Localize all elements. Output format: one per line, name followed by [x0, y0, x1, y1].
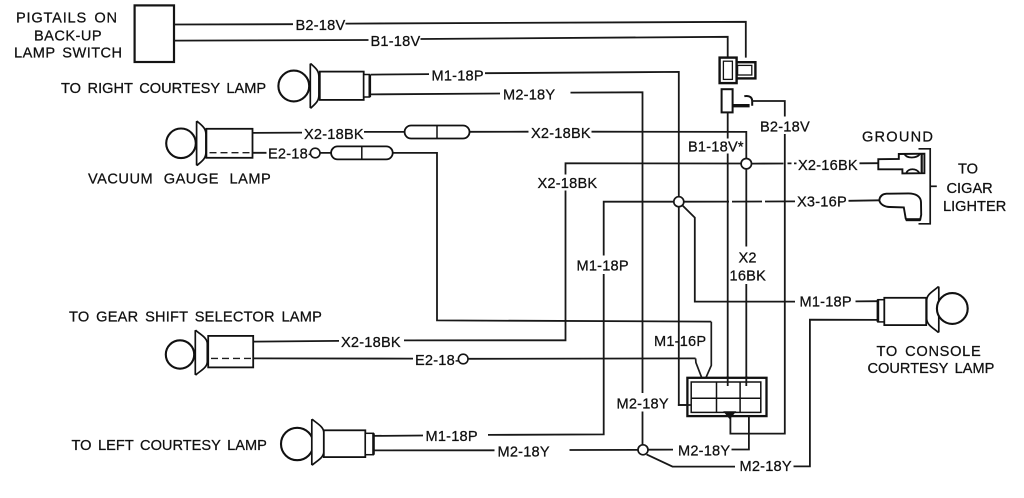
wire B2-18V right drop [730, 101, 784, 434]
svg-text:M2-18Y: M2-18Y [678, 444, 730, 460]
svg-text:M2-18Y: M2-18Y [503, 88, 555, 104]
svg-text:VACUUM GAUGE LAMP: VACUUM GAUGE LAMP [88, 172, 271, 188]
label E2-18-O vacuum [268, 147, 320, 163]
lamp: left courtesy band [365, 433, 373, 454]
lamp: gear shift selector socket [208, 336, 253, 368]
wire M2-18Y from left courtesy lamp [375, 449, 639, 452]
junction circle M2-18Y net [638, 320, 878, 467]
wire X2-16BK to ground [752, 162, 879, 164]
junction circle M1-18P net [674, 197, 878, 302]
dashed lead inside gear shift socket [211, 357, 253, 359]
svg-text:M2-18Y: M2-18Y [740, 459, 792, 475]
dashed lead inside vacuum gauge socket [210, 152, 253, 154]
backup lamp switch pigtail box [135, 5, 174, 62]
label E2-18-O gear shift [415, 353, 468, 369]
lamp: right courtesy flange [310, 64, 319, 108]
svg-text:B1-18V*: B1-18V* [688, 140, 744, 156]
svg-text:M1-18P: M1-18P [426, 429, 478, 445]
svg-text:TO CONSOLE: TO CONSOLE [877, 344, 982, 360]
cigar lighter elbow connector [879, 193, 921, 220]
svg-text:M2-18Y: M2-18Y [617, 397, 669, 413]
svg-text:TO GEAR SHIFT SELECTOR LAMP: TO GEAR SHIFT SELECTOR LAMP [69, 310, 322, 326]
svg-text:TO LEFT COURTESY LAMP: TO LEFT COURTESY LAMP [72, 438, 267, 454]
bullet connector on E2-18-O [331, 146, 393, 159]
svg-text:M1-16P: M1-16P [654, 334, 706, 350]
lamp: right courtesy band [364, 75, 370, 98]
lamp: right courtesy bulb [278, 71, 309, 102]
label PIGTAILS ON BACK-UP LAMP SWITCH [14, 11, 123, 62]
svg-text:X2-18BK: X2-18BK [341, 335, 401, 351]
svg-text:X3-16P: X3-16P [797, 195, 847, 211]
svg-text:X2: X2 [739, 251, 757, 267]
label TO CIGAR LIGHTER [943, 162, 1006, 216]
lamp: gear shift selector bulb [166, 340, 194, 368]
ground terminal [878, 154, 924, 174]
label TO CONSOLE COURTESY LAMP [868, 344, 995, 377]
svg-text:BACK-UP: BACK-UP [34, 29, 102, 45]
label X2 16BK stacked [730, 251, 767, 285]
svg-text:M1-18P: M1-18P [577, 259, 629, 275]
svg-text:M1-18P: M1-18P [432, 69, 484, 85]
wire X2-16BK drop to connector block [745, 169, 747, 386]
connector block (console harness) [687, 378, 766, 416]
svg-text:B2-18V: B2-18V [296, 18, 346, 34]
svg-text:E2-18-: E2-18- [415, 353, 460, 369]
svg-text:X2-18BK: X2-18BK [304, 127, 364, 143]
wire M1-16P funnel into connector block [696, 322, 712, 382]
lamp: console courtesy socket [884, 298, 926, 325]
svg-text:B1-18V: B1-18V [371, 34, 421, 50]
svg-text:B2-18V: B2-18V [760, 120, 810, 136]
lamp: vacuum gauge bulb [166, 129, 196, 159]
lamp: console courtesy bulb [937, 293, 968, 324]
connector block index arrow [723, 411, 736, 419]
single pigtail connector below plug [722, 89, 733, 112]
hook terminal on pigtail [733, 96, 753, 106]
svg-text:PIGTAILS ON: PIGTAILS ON [16, 11, 118, 27]
svg-text:GROUND: GROUND [862, 130, 934, 146]
lamp: right courtesy socket [320, 72, 364, 100]
svg-text:LIGHTER: LIGHTER [943, 199, 1006, 215]
svg-text:X2-18BK: X2-18BK [531, 126, 591, 142]
wire X3-16P run [374, 200, 880, 436]
svg-text:16BK: 16BK [730, 269, 767, 285]
svg-text:COURTESY LAMP: COURTESY LAMP [868, 361, 995, 377]
lamp: left courtesy flange [312, 420, 324, 465]
bracket to cigar lighter [919, 149, 937, 224]
svg-text:E2-18-: E2-18- [268, 147, 313, 163]
wire X2-18BK from vacuum gauge lamp [253, 132, 747, 164]
lamp: console courtesy band [878, 300, 884, 322]
wire X2 net left riser and gear shift branch [253, 163, 741, 341]
bullet connector on X2-18BK [405, 126, 470, 139]
svg-text:X2-18BK: X2-18BK [538, 176, 598, 192]
lamp: gear shift selector flange [195, 331, 207, 375]
wire E2-18-O from vacuum gauge lamp [253, 153, 712, 322]
lamp: vacuum gauge socket [206, 129, 252, 158]
wire B1-18V top run [174, 37, 728, 58]
wire M1-18P from right courtesy lamp [371, 72, 692, 405]
svg-text:TO RIGHT COURTESY LAMP: TO RIGHT COURTESY LAMP [61, 81, 266, 97]
inline connector pair (back-up switch harness plug) [720, 58, 756, 84]
lamp: left courtesy bulb [281, 428, 313, 460]
wire M2-18Y from right courtesy lamp [371, 92, 643, 445]
svg-text:TO: TO [958, 162, 978, 178]
svg-text:CIGAR: CIGAR [947, 181, 993, 197]
svg-text:M1-18P: M1-18P [800, 295, 852, 311]
svg-text:M2-18Y: M2-18Y [498, 445, 550, 461]
wire B2-18V top run [174, 22, 746, 58]
lamp: left courtesy socket [324, 430, 366, 457]
wire B1-18V drop to connector block [727, 112, 729, 386]
lamp: vacuum gauge flange [197, 122, 206, 166]
junction circle X2 net [741, 159, 751, 169]
wires re-entering connector block [678, 376, 746, 405]
wire E2-18-O gear shift [253, 357, 695, 359]
lamp: console courtesy flange [927, 287, 939, 332]
svg-text:X2-16BK: X2-16BK [798, 158, 858, 174]
svg-text:LAMP SWITCH: LAMP SWITCH [14, 46, 123, 62]
